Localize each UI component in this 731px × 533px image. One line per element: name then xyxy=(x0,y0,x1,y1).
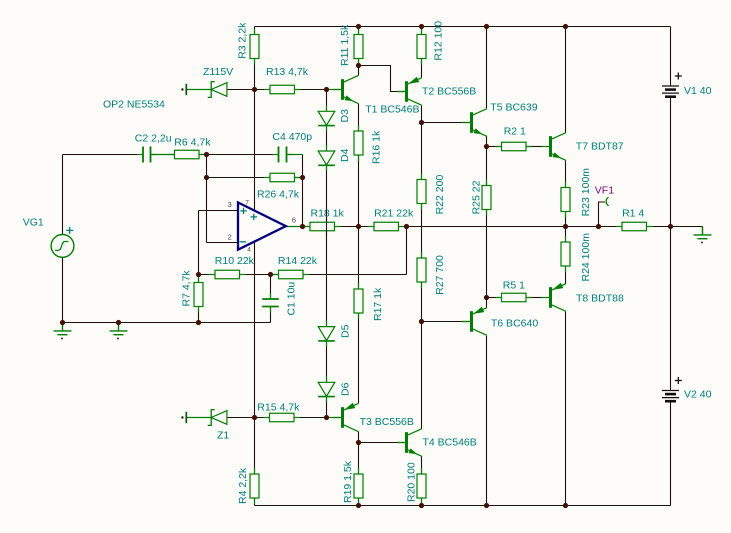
svg-text:R2 1: R2 1 xyxy=(504,126,526,138)
wire T1 emitter to R16 xyxy=(358,103,360,131)
junction xyxy=(419,120,424,125)
resistor R4 2,2k xyxy=(254,468,256,474)
svg-text:R6 4,7k: R6 4,7k xyxy=(174,137,211,149)
op-amp minus input marker xyxy=(240,241,246,243)
svg-text:R4 2,2k: R4 2,2k xyxy=(237,467,249,504)
resistor R13 4,7k xyxy=(264,89,270,91)
wire R12 leads xyxy=(421,27,423,35)
battery V2 40 xyxy=(662,391,679,402)
wire R24 lead xyxy=(565,227,567,243)
plus sign of VG1 xyxy=(66,227,73,234)
svg-text:T1 BC546B: T1 BC546B xyxy=(365,104,419,116)
resistor R12 100 xyxy=(421,29,423,35)
svg-text:R10 22k: R10 22k xyxy=(215,255,255,267)
wire diode string D5-D6 xyxy=(326,343,328,383)
svg-text:D4: D4 xyxy=(339,148,351,162)
svg-text:T8 BDT88: T8 BDT88 xyxy=(576,293,624,305)
resistor R24 100m xyxy=(565,236,567,242)
wire to right ground xyxy=(671,226,703,228)
wire R11 leads xyxy=(358,27,360,35)
junction xyxy=(324,87,329,92)
svg-text:R17 1k: R17 1k xyxy=(372,287,384,321)
transistor T2 BC556B xyxy=(398,77,423,106)
wire V1 column xyxy=(670,27,672,87)
wire T5 collector xyxy=(486,27,488,109)
svg-text:V2 40: V2 40 xyxy=(684,388,712,400)
wire C4 column down xyxy=(302,155,304,178)
wire T6 collector to bottom rail xyxy=(486,336,488,506)
wire R22 column xyxy=(421,123,423,180)
wire T5 base row xyxy=(422,122,463,124)
resistor R14 22k xyxy=(273,274,279,276)
junction xyxy=(419,319,424,324)
junction xyxy=(419,24,424,29)
wire Z1 row xyxy=(227,417,270,419)
resistor R19 1,5k xyxy=(358,468,360,474)
junction xyxy=(204,152,209,157)
wire R15 to T3 base xyxy=(294,417,327,419)
wire R3 leads xyxy=(254,27,256,35)
resistor R16 1k xyxy=(358,125,360,131)
junction xyxy=(196,272,201,277)
svg-text:R7 4,7k: R7 4,7k xyxy=(181,270,193,307)
wire VG1 top xyxy=(62,155,64,235)
junction xyxy=(596,224,601,229)
wire Z115V row xyxy=(227,89,270,91)
junction xyxy=(484,503,489,508)
wire R10 to C1 junction xyxy=(240,274,271,276)
svg-text:Z1: Z1 xyxy=(217,429,229,441)
wire R6 lead xyxy=(199,154,207,156)
svg-text:T7 BDT87: T7 BDT87 xyxy=(576,141,624,153)
wire T1 collector xyxy=(358,66,360,76)
svg-text:T6 BC640: T6 BC640 xyxy=(491,317,538,329)
diode D6 xyxy=(326,376,328,382)
wire output row to R1 xyxy=(599,226,623,228)
svg-text:R27 700: R27 700 xyxy=(434,255,446,295)
junction xyxy=(60,320,65,325)
wire op-amp output xyxy=(286,226,303,228)
transistor T7 BDT87 xyxy=(542,133,567,161)
junction xyxy=(356,224,361,229)
wire T4 base row xyxy=(359,442,398,444)
source VG1 xyxy=(51,235,74,258)
wire R6 junction to C4 xyxy=(207,154,279,156)
wire T7 emitter to R23 xyxy=(565,161,567,188)
junction xyxy=(204,175,209,180)
wire R7 leads xyxy=(198,275,200,283)
junction xyxy=(484,144,489,149)
junction xyxy=(404,224,409,229)
diode D3 xyxy=(326,105,328,111)
svg-text:4: 4 xyxy=(247,247,251,254)
svg-text:R14 22k: R14 22k xyxy=(278,255,318,267)
wire R1 to battery column xyxy=(647,226,671,228)
junction xyxy=(356,503,361,508)
diode D4 xyxy=(326,145,328,151)
wire op-amp V+ pin7 column xyxy=(254,90,256,211)
wire pin3 input xyxy=(199,210,239,212)
svg-text:R24 100m: R24 100m xyxy=(580,233,592,282)
wire VG1 bottom xyxy=(62,257,64,322)
wire feedback row xyxy=(303,274,407,276)
junction xyxy=(419,503,424,508)
wire feedback column xyxy=(406,227,408,275)
wire diode string D4 down xyxy=(326,166,328,327)
svg-text:R1 4: R1 4 xyxy=(622,207,644,219)
wire C1 leads xyxy=(270,275,272,300)
resistor R15 4,7k xyxy=(264,417,270,419)
junction xyxy=(484,295,489,300)
wire R17 to T3 emitter xyxy=(358,313,360,404)
transistor T5 BC639 xyxy=(463,109,488,137)
svg-text:R12 100: R12 100 xyxy=(433,21,445,61)
wire T8 collector to bottom rail xyxy=(565,312,567,506)
svg-text:R19 1,5k: R19 1,5k xyxy=(342,460,354,503)
junction xyxy=(356,440,361,445)
resistor R20 100 xyxy=(421,468,423,474)
svg-text:2: 2 xyxy=(228,232,232,241)
svg-text:R3 2,2k: R3 2,2k xyxy=(237,22,249,59)
svg-text:R25 22: R25 22 xyxy=(471,180,483,214)
ground GND2 xyxy=(110,323,128,335)
wire R4 column xyxy=(254,418,256,475)
terminal of Z1 xyxy=(185,412,187,423)
resistor R27 700 xyxy=(421,252,423,258)
wire output rail to R17 xyxy=(358,227,360,290)
wire T4 emitter to R20 xyxy=(421,456,423,474)
ground GND1 xyxy=(54,323,72,335)
transistor T4 BC546B xyxy=(398,429,423,457)
wire T2 collector xyxy=(421,106,423,123)
wire R23 lead xyxy=(565,212,567,227)
wire pin2 input xyxy=(207,242,239,244)
probe VF1 xyxy=(599,202,606,227)
svg-text:D3: D3 xyxy=(339,109,351,123)
wire R10 to pin3 node xyxy=(199,274,216,276)
plus sign of V1 40 xyxy=(675,73,682,80)
wire -V bottom rail xyxy=(255,505,671,507)
wire T4 collector column xyxy=(421,322,423,429)
svg-text:R23 100m: R23 100m xyxy=(580,168,592,217)
wire T7 collector xyxy=(565,27,567,133)
svg-text:R22 200: R22 200 xyxy=(434,175,446,215)
svg-text:C1 10u: C1 10u xyxy=(286,282,298,316)
svg-text:V1 40: V1 40 xyxy=(684,85,712,97)
junction xyxy=(356,63,361,68)
wire R26 to output node xyxy=(302,178,304,227)
wire R20 lead xyxy=(421,498,423,506)
resistor R2 1 xyxy=(496,146,502,148)
junction xyxy=(196,320,201,325)
svg-text:R11 1,5k: R11 1,5k xyxy=(339,24,351,66)
resistor R11 1,5k xyxy=(358,29,360,35)
resistor R26 4,7k xyxy=(264,177,270,179)
junction xyxy=(484,24,489,29)
wire input row C2 xyxy=(63,154,144,156)
svg-text:R20 100: R20 100 xyxy=(406,462,418,502)
wire T2 base path xyxy=(359,66,398,92)
svg-text:R5 1: R5 1 xyxy=(503,280,525,292)
junction xyxy=(268,272,273,277)
junction xyxy=(300,224,305,229)
plus sign of V2 40 xyxy=(675,377,682,384)
svg-text:C4 470p: C4 470p xyxy=(272,131,312,143)
svg-text:T4 BC546B: T4 BC546B xyxy=(423,437,477,449)
wire R25 column xyxy=(486,147,488,186)
wire V2 column xyxy=(670,227,672,391)
wire T6 base row xyxy=(422,321,463,323)
svg-text:R13 4,7k: R13 4,7k xyxy=(266,66,309,78)
svg-text:R15 4,7k: R15 4,7k xyxy=(257,401,300,413)
wire T5 emitter xyxy=(486,136,488,146)
junction xyxy=(252,87,257,92)
svg-text:C2 2,2u: C2 2,2u xyxy=(135,132,172,144)
svg-text:R21 22k: R21 22k xyxy=(374,208,414,220)
svg-text:6: 6 xyxy=(292,216,296,225)
battery V1 40 xyxy=(662,86,679,97)
junction xyxy=(116,320,121,325)
junction xyxy=(668,224,673,229)
junction xyxy=(324,415,329,420)
transistor T8 BDT88 xyxy=(542,283,567,312)
wire +V top rail xyxy=(255,26,671,28)
transistor T3 BC556B xyxy=(334,403,359,432)
svg-text:R26 4,7k: R26 4,7k xyxy=(257,189,300,201)
svg-text:D5: D5 xyxy=(340,324,352,338)
junction xyxy=(563,24,568,29)
wire R19 column xyxy=(358,443,360,475)
wire output row left xyxy=(303,226,311,228)
resistor R25 22 xyxy=(486,180,488,186)
wire R13 to T1 base xyxy=(295,89,327,91)
wire T6 emitter xyxy=(486,298,488,308)
junction xyxy=(252,415,257,420)
resistor R6 4,7k xyxy=(169,154,175,156)
svg-text:VG1: VG1 xyxy=(23,217,44,229)
svg-text:D6: D6 xyxy=(340,382,352,396)
wire R16 to output rail xyxy=(358,155,360,227)
capacitor C2 2,2u xyxy=(143,147,151,163)
junction xyxy=(300,175,305,180)
terminal of Z115V xyxy=(185,84,187,95)
svg-text:T5 BC639: T5 BC639 xyxy=(490,102,537,114)
resistor R1 4 xyxy=(616,226,622,228)
resistor R23 100m xyxy=(565,182,567,188)
op-amp plus input marker xyxy=(240,208,246,214)
wire C4 right lead xyxy=(287,154,303,156)
resistor R21 22k xyxy=(368,226,374,228)
wire R2 row xyxy=(487,146,502,148)
resistor R17 1k xyxy=(358,283,360,289)
resistor R18 1k xyxy=(304,226,310,228)
svg-text:T2 BC556B: T2 BC556B xyxy=(422,86,476,98)
svg-text:VF1: VF1 xyxy=(595,185,614,197)
wire R5 row xyxy=(487,297,502,299)
wire diode string crossing R18 xyxy=(326,217,328,236)
svg-text:T3 BC556B: T3 BC556B xyxy=(360,416,414,428)
svg-text:Z115V: Z115V xyxy=(203,66,233,78)
wire pin2 column xyxy=(206,155,208,178)
svg-text:OP2 NE5534: OP2 NE5534 xyxy=(103,99,165,111)
resistor R3 2,2k xyxy=(254,29,256,35)
ground GND output xyxy=(694,227,712,239)
junction xyxy=(356,24,361,29)
capacitor C4 470p xyxy=(279,147,287,163)
junction xyxy=(563,503,568,508)
capacitor C1 10u xyxy=(262,299,279,307)
wire T3 collector to T4 base xyxy=(358,431,360,442)
svg-text:R16 1k: R16 1k xyxy=(371,130,383,164)
wire R24 to T8 emitter xyxy=(565,266,567,283)
wire R14 to C1 junction xyxy=(271,274,279,276)
diode D5 xyxy=(326,321,328,327)
transistor T1 BC546B xyxy=(334,76,359,104)
resistor R10 22k xyxy=(209,274,215,276)
wire R26 row xyxy=(207,177,271,179)
op-amp U1 NE5534 xyxy=(238,203,286,250)
junction xyxy=(563,224,568,229)
wire R27 to T6 base junction xyxy=(421,282,423,322)
wire op-amp V- pin4 column xyxy=(254,242,256,418)
zener diode Z115V xyxy=(186,82,227,98)
svg-text:7: 7 xyxy=(245,200,249,207)
resistor R5 1 xyxy=(496,297,502,299)
wire C2 to R6 xyxy=(151,154,175,156)
wire output row R18-R21 xyxy=(335,226,375,228)
resistor R7 4,7k xyxy=(198,277,200,283)
zener diode Z1 xyxy=(186,410,227,426)
svg-text:R18 1k: R18 1k xyxy=(311,208,345,220)
wire diode string D3-D4 xyxy=(326,90,328,112)
wire output row R21 to R23 xyxy=(399,226,566,228)
op-amp supply plus marker xyxy=(251,214,257,220)
wire output row to VF1 xyxy=(566,226,599,228)
resistor R22 200 xyxy=(421,174,423,180)
transistor T6 BC640 xyxy=(463,307,488,336)
wire ground rail xyxy=(63,322,271,324)
svg-text:3: 3 xyxy=(228,200,232,209)
